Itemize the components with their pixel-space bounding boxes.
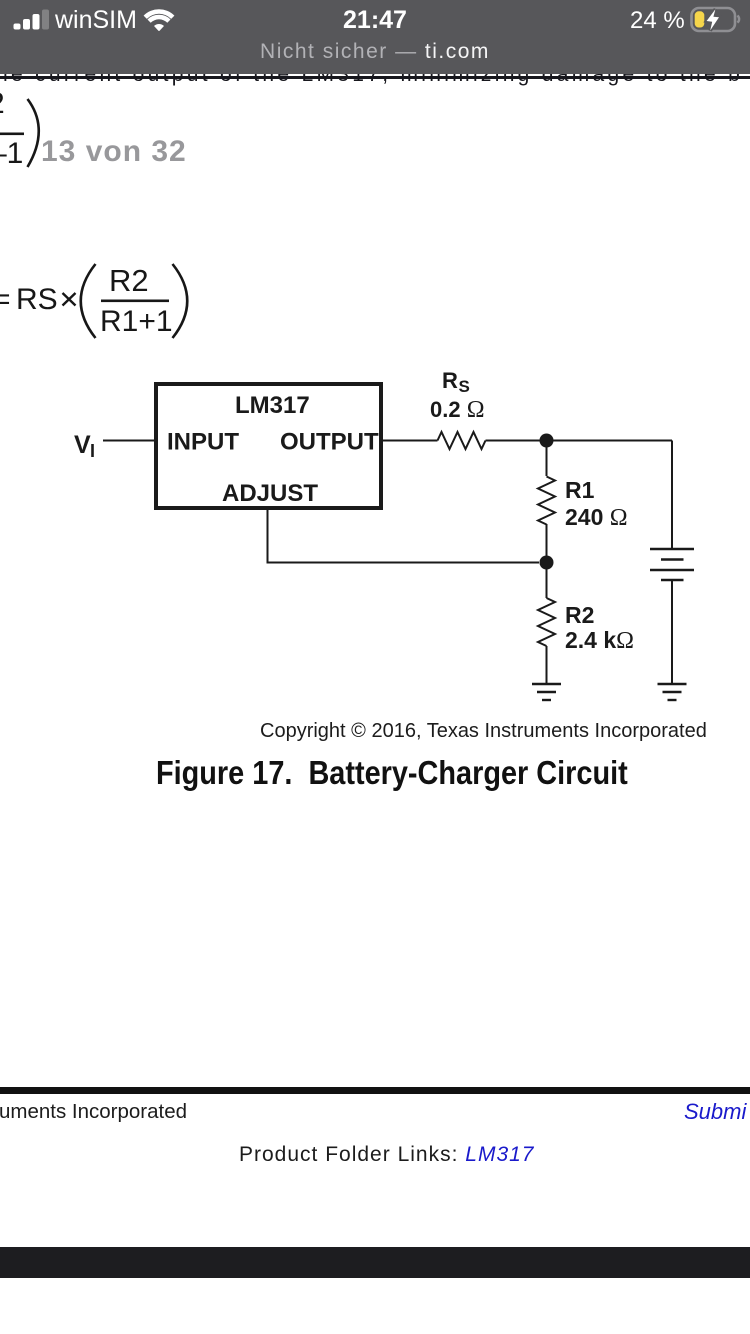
wire OUTPUT to RS — [383, 440, 438, 442]
node VI label — [74, 431, 95, 461]
svg-text:2.4 kΩ: 2.4 kΩ — [565, 627, 634, 654]
svg-text:2: 2 — [0, 90, 5, 120]
main formula = RS x (R2/(R1+1)) — [0, 250, 240, 360]
ground (right) — [658, 684, 687, 700]
svg-text:LM317: LM317 — [235, 392, 310, 419]
svg-text:INPUT: INPUT — [167, 429, 239, 456]
svg-text:S: S — [459, 377, 470, 396]
svg-text:I: I — [90, 441, 95, 461]
page indicator 13 von 32 — [41, 137, 187, 167]
clock — [0, 8, 750, 33]
svg-text:–1: –1 — [0, 137, 23, 170]
wire R2 to ground — [546, 646, 548, 684]
battery BT1 — [650, 549, 694, 580]
copyright line — [260, 721, 707, 742]
svg-text:0.2 Ω: 0.2 Ω — [430, 397, 485, 423]
wire battery to ground — [671, 580, 673, 684]
wire node 2 down to R2 — [546, 563, 548, 599]
svg-text:ADJUST: ADJUST — [222, 480, 318, 507]
battery percent — [630, 9, 685, 33]
clipped paragraph text — [0, 64, 750, 85]
wire node 1 to battery — [671, 441, 673, 550]
page gap black bar — [0, 1247, 750, 1278]
svg-text:R2: R2 — [109, 263, 149, 298]
footer rule — [0, 1087, 750, 1094]
wire ADJUST to node 2 — [268, 510, 540, 563]
iOS status / URL bar — [0, 0, 750, 74]
svg-text:240 Ω: 240 Ω — [565, 504, 628, 531]
footer left text (clipped) — [0, 1101, 187, 1122]
wire R1 to node 2 — [546, 524, 548, 563]
battery icon — [689, 6, 743, 36]
carrier name — [55, 8, 137, 33]
svg-text:R2: R2 — [565, 602, 594, 628]
svg-text:OUTPUT: OUTPUT — [280, 429, 379, 456]
strike line over clipped paragraph — [0, 76, 750, 79]
resistor R2 — [538, 598, 555, 646]
wire node 1 down to R1 — [546, 441, 548, 477]
IC LM317 regulator box — [156, 384, 381, 508]
value label 0.2 ohm — [430, 397, 485, 423]
ground (left) — [532, 684, 561, 700]
wire RS to node 1 — [486, 440, 673, 442]
figure caption — [156, 756, 628, 790]
clipped formula fragment top-left — [0, 90, 60, 180]
svg-text:R: R — [442, 368, 458, 393]
wifi icon — [138, 4, 182, 34]
svg-text:R1+1: R1+1 — [100, 305, 173, 338]
footer right link (clipped) — [684, 1100, 746, 1123]
signal bars icon — [12, 8, 52, 32]
junction node 1 — [540, 434, 554, 448]
label RS — [442, 368, 470, 396]
wire VI to INPUT — [103, 440, 156, 442]
url line — [0, 41, 750, 62]
resistor RS — [438, 432, 486, 449]
svg-text:RS: RS — [16, 283, 58, 316]
svg-text:=: = — [0, 283, 11, 316]
svg-text:R1: R1 — [565, 477, 595, 503]
resistor R1 — [538, 477, 555, 525]
product folder links — [239, 1144, 534, 1166]
junction node 2 — [540, 556, 554, 570]
svg-text:V: V — [74, 431, 91, 459]
